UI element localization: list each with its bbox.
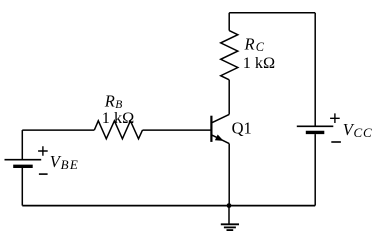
resistor RC: [221, 31, 238, 80]
wire left side upper (base to Vbe): [21, 130, 23, 159]
resistor RB: [94, 121, 142, 139]
wire emitter: [228, 144, 230, 206]
wire top rail: [229, 12, 315, 14]
transistor Q1: [211, 114, 229, 143]
node ground junction: [227, 203, 232, 208]
svg-text:RC: RC: [244, 35, 265, 54]
svg-text:VCC: VCC: [343, 120, 373, 140]
wire bottom rail: [22, 205, 315, 207]
wire base (left segment): [22, 129, 94, 131]
svg-text:VBE: VBE: [50, 152, 79, 172]
svg-text:1 kΩ: 1 kΩ: [243, 53, 275, 72]
wire right side upper (Vcc to top rail): [314, 13, 316, 126]
label VBE plus: [38, 146, 48, 156]
svg-text:Q1: Q1: [232, 118, 252, 137]
label VCC minus: [331, 141, 341, 143]
wire collector stub (Rc top): [228, 13, 230, 31]
label VBE minus: [39, 173, 48, 175]
label VCC plus: [330, 113, 340, 123]
wire collector: [228, 80, 230, 115]
battery VCC: [297, 126, 334, 205]
ground: [221, 206, 239, 231]
wire base (right segment): [143, 129, 212, 131]
svg-text:1 kΩ: 1 kΩ: [102, 108, 134, 127]
battery VBE: [5, 160, 42, 206]
